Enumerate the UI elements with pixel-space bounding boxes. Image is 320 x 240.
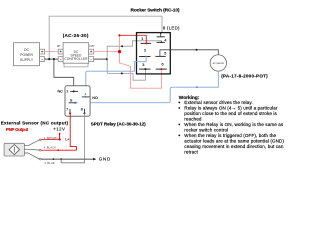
wire rocker pin 5 to actuator top (160, 50, 218, 55)
external sensor body (4, 143, 24, 156)
relay pin 7 (66, 108, 71, 115)
svg-text:5: 5 (164, 51, 166, 55)
node dot on actuator feed wire (196, 49, 198, 51)
pin 6 bar (156, 68, 167, 70)
sensor wire 4 black (24, 146, 56, 151)
working notes text block (179, 95, 285, 155)
terminal OP plus (89, 49, 94, 54)
svg-text:L+: L+ (65, 138, 69, 142)
svg-text:6: 6 (161, 63, 163, 67)
svg-text:1: 1 (141, 37, 143, 41)
wire blue actuator bottom to relay NO (90, 71, 218, 103)
wire red sensor output rail (46, 149, 77, 151)
relay pin 4 bar (82, 93, 90, 98)
terminal PS minus (40, 57, 45, 62)
svg-text:Relay is always ON (4→ 5) unti: Relay is always ON (4→ 5) until a partic… (184, 105, 278, 110)
svg-text:I/P: I/P (57, 44, 61, 48)
wire supply minus down to relay pin 1 (54, 59, 74, 93)
terminal IP plus (58, 49, 63, 54)
svg-text:ceasing movement in extend dir: ceasing movement in extend direction, bu… (184, 144, 284, 149)
wire red from sensor brown connector to L plus node (41, 138, 59, 140)
svg-text:PNP Output: PNP Output (6, 127, 29, 132)
sensor wire 1 brown (24, 136, 57, 146)
svg-text:Rocker Switch (RC-10): Rocker Switch (RC-10) (131, 7, 180, 13)
node big red junction dot at OP plus (118, 50, 121, 53)
wire red continuation of sensor wire 4 (41, 149, 46, 151)
svg-text:4. BLACK: 4. BLACK (44, 146, 56, 150)
svg-text:When the relay is triggered (O: When the relay is triggered (OFF), both … (184, 133, 276, 138)
svg-text:retract: retract (184, 149, 198, 154)
terminal OP minus (89, 57, 94, 62)
svg-text:actuator leads are at the same: actuator leads are at the same potential… (184, 138, 284, 143)
wire red feed to rocker pin 1 (120, 35, 147, 43)
svg-text:POWER: POWER (20, 53, 33, 57)
svg-text:rocker switch control: rocker switch control (184, 127, 228, 132)
terminal PS plus (40, 49, 45, 54)
wire relay pin 8 gray down to ground bus (84, 113, 86, 159)
wire PS minus to controller IP minus (black) (45, 58, 59, 60)
svg-text:O/P: O/P (89, 44, 94, 48)
svg-text:3: 3 (142, 63, 144, 67)
svg-text:2: 2 (144, 48, 146, 52)
svg-text:When the Relay is ON, working: When the Relay is ON, working is the sam… (184, 122, 284, 127)
relay pin 5 common bar with arrow (69, 99, 78, 105)
node junction dot on negative wire feeding LED wire (48, 58, 50, 60)
wire ground under-loop (61, 159, 84, 163)
svg-text:7: 7 (66, 108, 68, 112)
wire positive riser (pink) from OP plus junction up to pin1 corner and down through jog to pin 6 loop (120, 35, 162, 88)
relay pin 8 (81, 108, 86, 115)
actuator circle (210, 55, 226, 71)
DC speed controller box (63, 43, 89, 64)
pin 8 LED bar (157, 33, 165, 37)
svg-text:1: 1 (66, 90, 68, 94)
svg-text:(AC-26-30): (AC-26-30) (63, 33, 89, 38)
svg-text:reached: reached (184, 116, 202, 121)
sensor wire 3 blue (24, 153, 54, 165)
wire gray rail riser to rocker pin 4 (107, 41, 161, 74)
svg-text:position close to the end of e: position close to the end of extend stro… (184, 111, 277, 116)
relay box (65, 86, 90, 116)
wire blue from rocker pin 2 down to relay pin 4 (86, 57, 146, 97)
node junction dot on negative wire feeding relay pin1 wire (53, 58, 55, 60)
svg-text:GND: GND (99, 157, 111, 162)
svg-text:(PA-17-8-2000-POT): (PA-17-8-2000-POT) (221, 74, 268, 79)
pin 2 bar (139, 56, 150, 58)
wire PS plus to controller IP plus (pink) (45, 51, 59, 53)
svg-text:4: 4 (164, 39, 166, 43)
svg-text:NC: NC (57, 90, 63, 94)
svg-text:SPDT Relay (AC-30-30-12): SPDT Relay (AC-30-30-12) (91, 122, 146, 127)
pin 4 bar with tick (157, 41, 165, 43)
svg-text:External Sensor (NC output): External Sensor (NC output) (1, 120, 69, 125)
node blue dot on actuator bottom wire (196, 86, 198, 88)
wire relay pin 7 red down to sensor output rail (70, 113, 76, 150)
pin 5 bar with elbow to actuator (155, 50, 165, 57)
ground bus wire with arrow (41, 158, 96, 161)
DC power supply box (14, 43, 40, 66)
svg-text:+12V: +12V (53, 127, 65, 132)
svg-text:SUPPLY: SUPPLY (20, 58, 34, 62)
svg-text:8: 8 (81, 108, 83, 112)
svg-text:External sensor drives the rel: External sensor drives the relay. (184, 100, 253, 105)
wire LED return from supply minus up and over to rocker pin 8 (49, 16, 162, 59)
wire lower gray rail to rocker pin 3 (107, 69, 145, 80)
wire OP minus output (dark) (94, 58, 107, 60)
pin 3 bar (139, 68, 150, 70)
terminal IP minus (58, 57, 63, 62)
node red corner dot at pin1 wire corner (118, 34, 120, 36)
wire red 12V drop with dots (58, 133, 60, 141)
rocker switch box (137, 33, 171, 74)
node junction dot upper gray rail (121, 45, 123, 47)
svg-text:NO: NO (92, 96, 98, 100)
svg-text:8 (LED): 8 (LED) (163, 26, 180, 31)
pin 1 bar (141, 42, 152, 44)
wire bracket under controller (64, 63, 88, 67)
svg-text:ACTUATOR: ACTUATOR (213, 62, 225, 65)
relay pin 1 bar (66, 90, 78, 94)
node OP minus junction dot (106, 58, 108, 60)
svg-text:4: 4 (84, 93, 86, 97)
svg-text:3. BLUE: 3. BLUE (44, 161, 55, 165)
svg-text:CONTROLLER: CONTROLLER (64, 57, 88, 61)
node junction dot lower gray rail (121, 72, 123, 74)
wire OP plus output (pink) to big red junction (94, 51, 120, 53)
svg-text:DC: DC (24, 48, 29, 52)
